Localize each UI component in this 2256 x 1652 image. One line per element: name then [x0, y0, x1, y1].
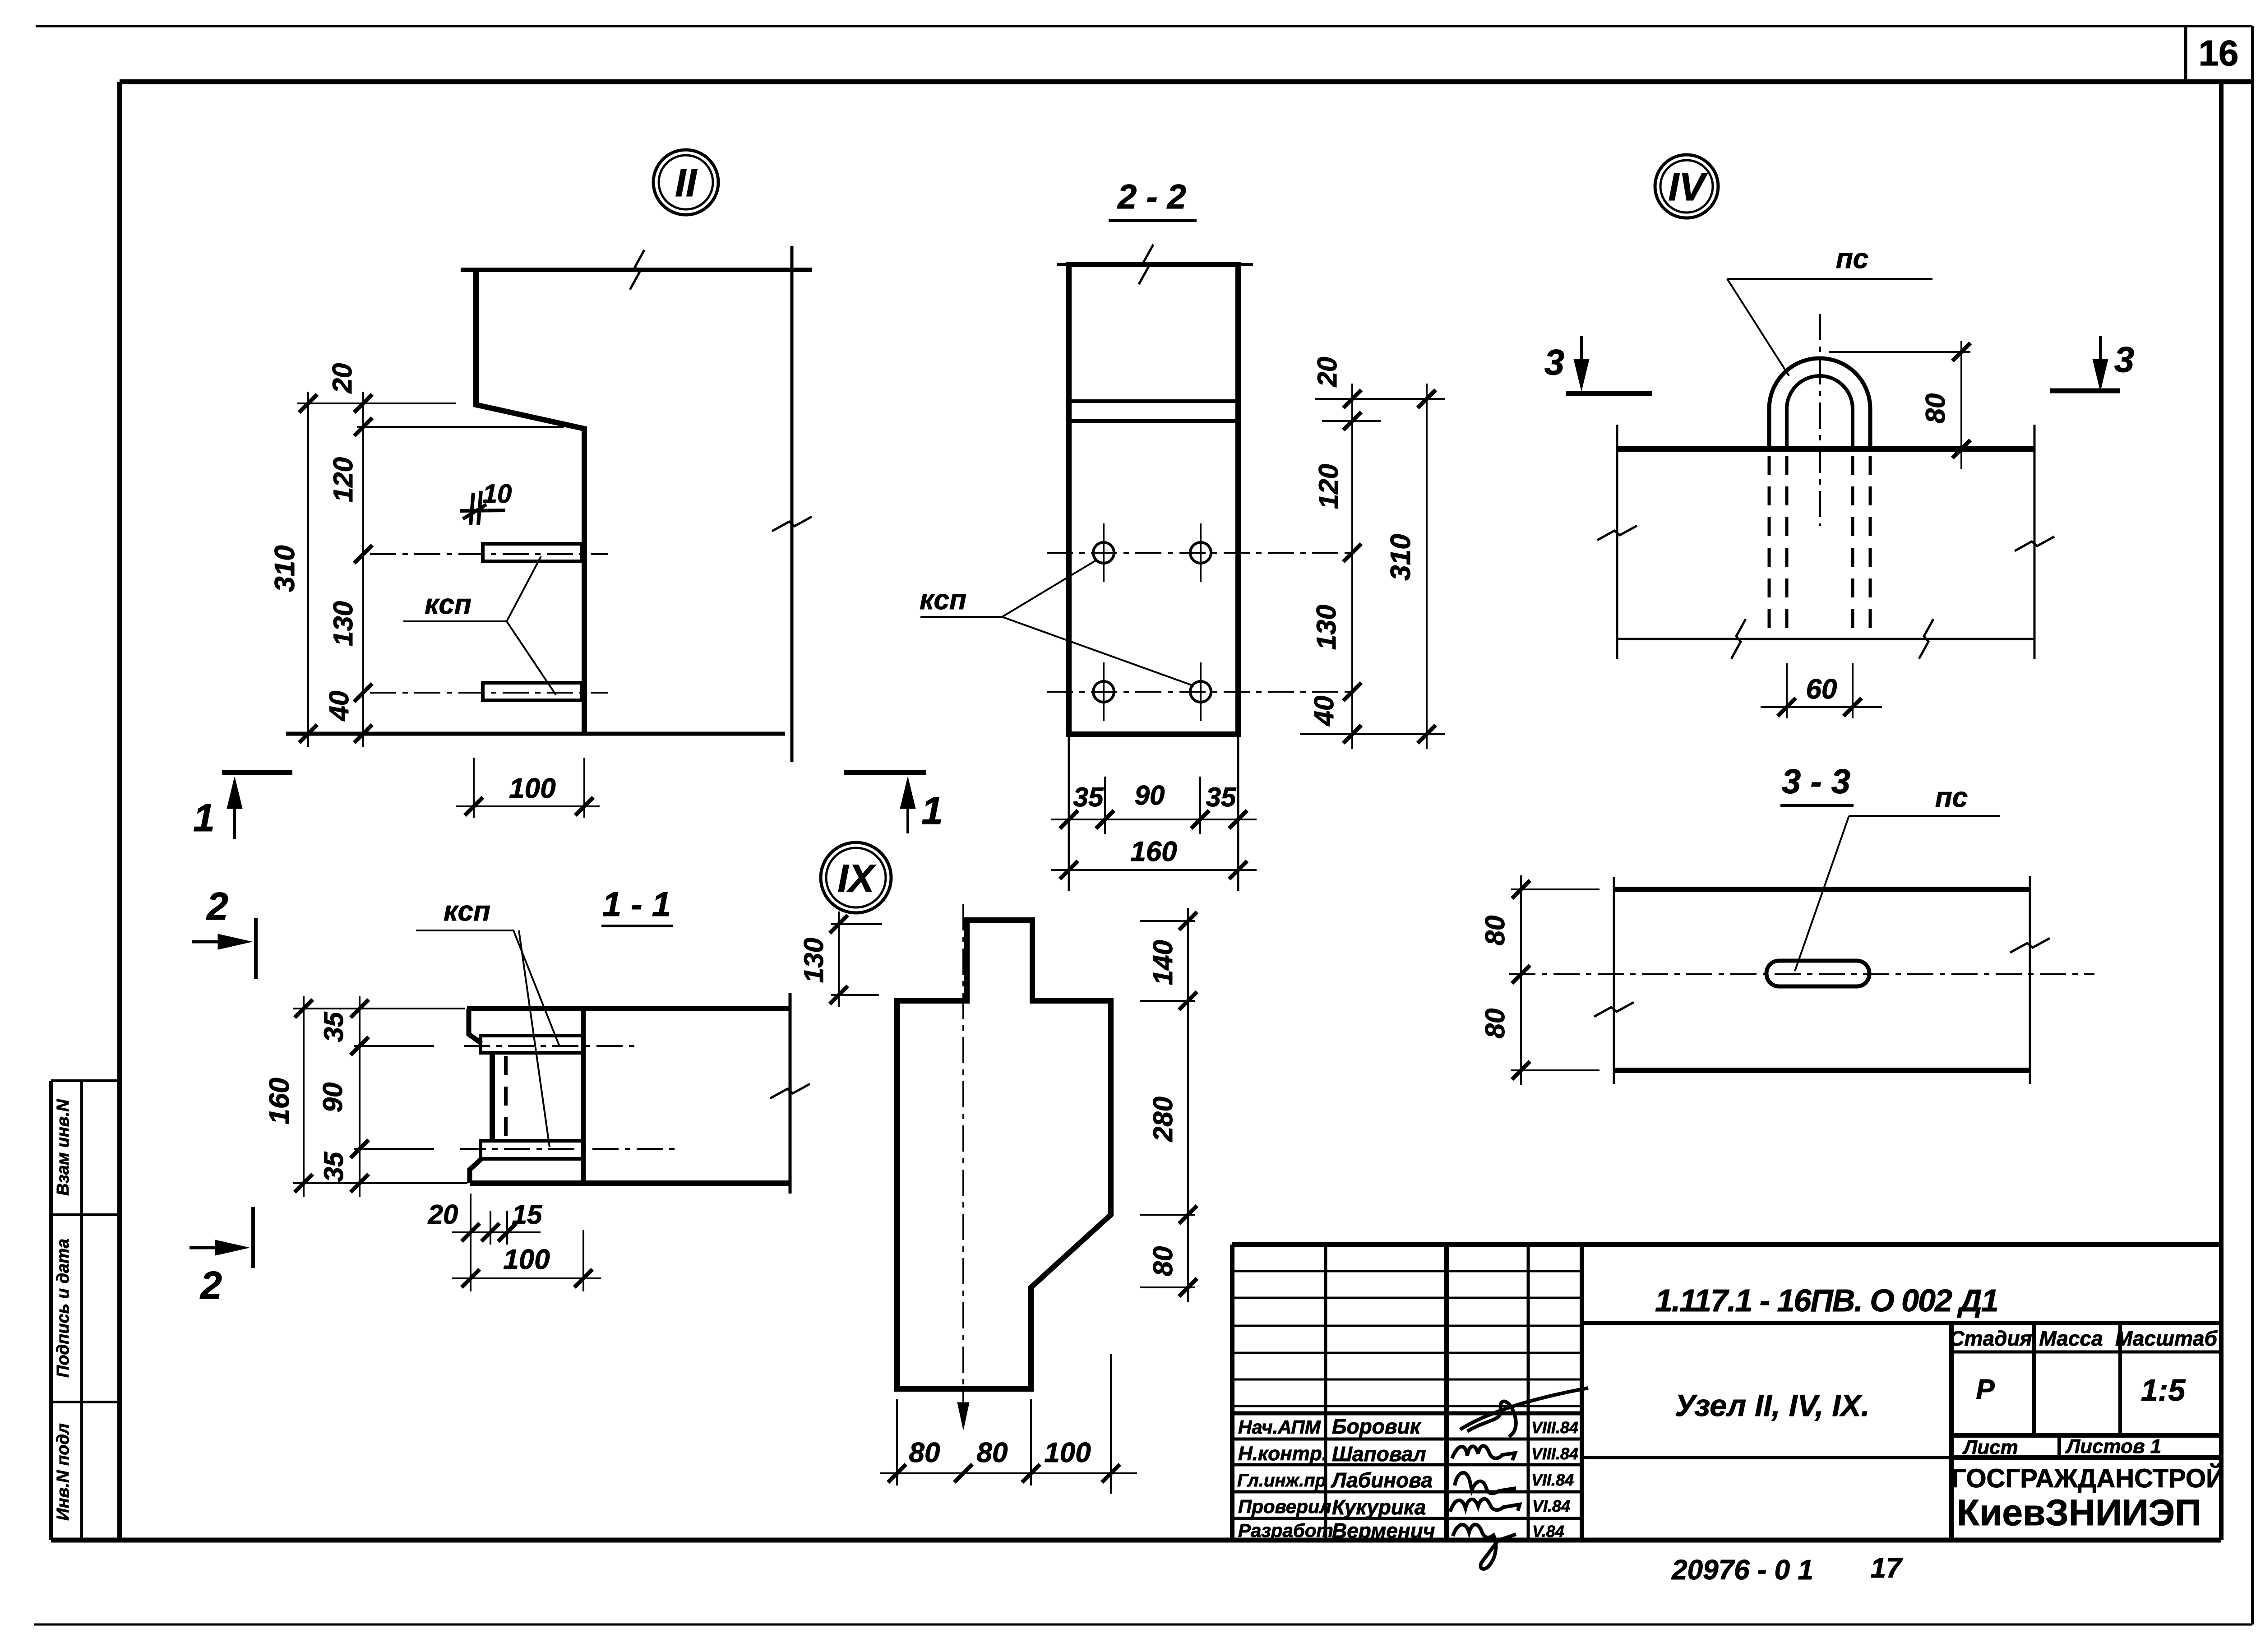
svg-text:20: 20: [327, 363, 357, 394]
section 2-2 hole top-right: [1190, 542, 1211, 563]
view II upper plate center line: [370, 553, 608, 555]
svg-text:90: 90: [318, 1083, 348, 1113]
detail IX column outline: [897, 920, 1111, 1389]
svg-text:VI.84: VI.84: [1532, 1497, 1570, 1515]
svg-text:140: 140: [1148, 940, 1178, 985]
section 1-1 dimension chain 35/90/35: [359, 996, 361, 1197]
svg-text:ксп: ксп: [425, 589, 472, 620]
section 3-3 dimension 80/80: [1520, 875, 1522, 1085]
svg-text:2: 2: [199, 1264, 222, 1307]
svg-text:35: 35: [319, 1151, 349, 1182]
view II beam top edge with break: [461, 268, 812, 272]
title block left table verticals: [1324, 1245, 1327, 1540]
svg-text:310: 310: [269, 545, 300, 592]
svg-text:пс: пс: [1935, 782, 1968, 813]
main frame right edge: [2219, 82, 2224, 1540]
svg-text:80: 80: [1148, 1246, 1178, 1277]
svg-text:120: 120: [1313, 464, 1344, 509]
svg-text:Гл.инж.пр: Гл.инж.пр: [1237, 1471, 1326, 1490]
section 3-3 plate bottom edge: [1614, 1068, 2030, 1073]
svg-text:35: 35: [1073, 782, 1104, 812]
svg-text:100: 100: [1044, 1437, 1091, 1468]
svg-text:Лабинова: Лабинова: [1331, 1468, 1433, 1492]
svg-text:20: 20: [428, 1199, 458, 1230]
detail IV slab right break edge: [2034, 425, 2036, 659]
svg-text:160: 160: [1130, 836, 1177, 867]
view II dimension 310: [307, 392, 309, 747]
section 3-3 slot пс: [1766, 961, 1869, 986]
svg-text:1.117.1 - 16ПВ. О 002 Д1: 1.117.1 - 16ПВ. О 002 Д1: [1655, 1283, 1998, 1318]
svg-text:Узел II, IV, IX.: Узел II, IV, IX.: [1675, 1388, 1870, 1423]
svg-text:ГОСГРАЖДАНСТРОЙ: ГОСГРАЖДАНСТРОЙ: [1951, 1464, 2225, 1493]
section 1-1 web hidden line: [504, 1056, 508, 1138]
section 3-3 plate top edge: [1614, 887, 2030, 892]
outer sheet border top line: [36, 25, 2252, 28]
section 2-2 hole bottom-right: [1190, 681, 1211, 702]
section 1-1 beam right break edge: [789, 993, 792, 1194]
section 2-2 dimension chain 20/120/130/40: [1351, 384, 1353, 749]
svg-text:VII.84: VII.84: [1531, 1471, 1574, 1489]
svg-text:пс: пс: [1836, 243, 1868, 274]
view II upper plate ксп: [483, 544, 582, 561]
section 2-2 right extension lines: [1315, 398, 1445, 400]
svg-text:Шаповал: Шаповал: [1332, 1442, 1426, 1466]
detail IV lifting loop пс inner: [1787, 376, 1853, 450]
svg-text:100: 100: [509, 773, 555, 804]
svg-text:VIII.84: VIII.84: [1531, 1444, 1578, 1463]
svg-text:80: 80: [1480, 1009, 1510, 1039]
main frame bottom edge: [51, 1538, 2221, 1543]
svg-text:120: 120: [328, 457, 358, 502]
svg-text:V.84: V.84: [1532, 1522, 1564, 1541]
section mark 1 right: [844, 770, 926, 775]
svg-text:КиевЗНИИЭП: КиевЗНИИЭП: [1957, 1492, 2201, 1533]
section 1-1 dimension 20/15: [452, 1231, 541, 1233]
view II dimension chain 20/120/130/40: [362, 392, 364, 747]
svg-text:280: 280: [1148, 1097, 1178, 1142]
section 1-1 column left profile lower chamfer: [470, 1159, 481, 1183]
detail IV label circle: [1655, 155, 1718, 218]
section 2-2 upper holes center line: [1047, 552, 1352, 554]
section 1-1 column left profile upper chamfer: [469, 1009, 481, 1043]
section 1-1 lower plate ксп: [481, 1141, 583, 1159]
svg-text:20976 - 0 1: 20976 - 0 1: [1671, 1555, 1813, 1586]
detail IV loop embedded legs dashed: [1768, 456, 1771, 637]
detail IV slab top edge: [1617, 446, 2034, 452]
signature Лабинова: [1455, 1473, 1516, 1494]
svg-text:1 - 1: 1 - 1: [602, 885, 671, 924]
title block right sub-table: [1949, 1323, 1954, 1540]
svg-text:310: 310: [1385, 534, 1416, 580]
svg-text:ксп: ксп: [920, 584, 966, 615]
detail IV lifting loop пс outer: [1769, 358, 1870, 450]
detail IX right extension lines: [1140, 920, 1195, 922]
svg-text:IV: IV: [1668, 166, 1708, 209]
svg-text:40: 40: [324, 691, 354, 722]
svg-text:160: 160: [264, 1078, 295, 1124]
svg-text:40: 40: [1309, 696, 1339, 727]
signature flourish Боровик: [1460, 1388, 1588, 1437]
section 2-2 dimension 35/90/35: [1051, 819, 1257, 820]
left stamp boxes outline: [49, 1081, 53, 1540]
detail IX bottom extension lines: [896, 1399, 898, 1485]
section 1-1 dimension 100: [452, 1277, 601, 1279]
svg-text:Стадия: Стадия: [1949, 1327, 2032, 1350]
svg-text:130: 130: [799, 938, 829, 983]
detail IX dimension 80/80/100: [880, 1472, 1137, 1474]
title block doc-number cell top edge: [1582, 1242, 2221, 1247]
section 1-1 upper plate center line: [464, 1045, 640, 1047]
svg-text:16: 16: [2199, 33, 2239, 73]
svg-text:130: 130: [1311, 605, 1341, 650]
svg-text:1:5: 1:5: [2141, 1373, 2186, 1407]
signature Шаповал: [1452, 1446, 1515, 1460]
detail IV dimension 80: [1829, 351, 1970, 353]
section 2-2 hole bottom-left: [1093, 681, 1114, 702]
svg-text:ксп: ксп: [444, 896, 490, 927]
svg-text:35: 35: [1206, 782, 1237, 812]
svg-text:Кукурика: Кукурика: [1332, 1495, 1426, 1519]
view II column profile: [476, 270, 584, 734]
section 1-1 beam bottom edge: [470, 1180, 790, 1186]
detail IX label circle: [821, 842, 891, 913]
section 2-2 top edge overshoot with break: [1057, 263, 1253, 266]
page number box "16" top-right: [2184, 26, 2187, 81]
section 1-1 lower plate center line: [460, 1148, 675, 1150]
detail II label circle: [653, 150, 718, 215]
section 1-1 column right edge: [581, 1009, 586, 1183]
detail IV loop center line: [1819, 314, 1821, 526]
svg-text:1: 1: [921, 789, 943, 833]
svg-text:20: 20: [1312, 357, 1342, 388]
svg-text:Боровик: Боровик: [1332, 1415, 1422, 1438]
view II dimension 100: [473, 758, 475, 818]
svg-text:IX: IX: [837, 857, 876, 900]
view II beam bottom edge: [286, 732, 785, 736]
section 1-1 beam top edge: [467, 1006, 790, 1011]
svg-text:80: 80: [1920, 393, 1951, 424]
svg-text:Взам инв.N: Взам инв.N: [54, 1099, 73, 1196]
detail IV slab left break edge: [1616, 425, 1618, 659]
title block left table thin row lines: [1232, 1270, 1582, 1273]
outer sheet border bottom line: [34, 1624, 2252, 1626]
svg-text:1: 1: [193, 796, 215, 840]
svg-text:80: 80: [1480, 916, 1510, 946]
detail IX dimension 130: [831, 923, 882, 925]
svg-text:2: 2: [206, 885, 228, 928]
section 3-3 center line: [1509, 973, 2094, 975]
section 2-2 plate outline: [1069, 264, 1238, 734]
svg-text:3: 3: [1544, 342, 1565, 382]
view II lower plate center line: [370, 692, 608, 694]
svg-text:17: 17: [1871, 1553, 1903, 1584]
svg-text:2 - 2: 2 - 2: [1117, 178, 1186, 216]
svg-text:Проверил: Проверил: [1238, 1496, 1331, 1517]
view II beam right break edge: [791, 246, 794, 762]
section 2-2 bottom extension lines: [1068, 734, 1070, 891]
section 1-1 bottom extension lines: [470, 1194, 472, 1291]
section 2-2 dimension 310: [1426, 384, 1428, 749]
main frame left edge: [117, 82, 122, 1540]
svg-text:Масштаб: Масштаб: [2115, 1327, 2218, 1350]
signature Кукурика: [1450, 1499, 1520, 1512]
view II dim extension lines: [297, 403, 456, 404]
svg-text:Лист: Лист: [1962, 1436, 2018, 1458]
section 2-2 lower holes center line: [1047, 691, 1352, 693]
svg-text:3: 3: [2114, 339, 2135, 379]
svg-text:130: 130: [328, 601, 358, 646]
detail IX column center line with arrow: [962, 904, 964, 1410]
svg-text:Нач.АПМ: Нач.АПМ: [1238, 1416, 1321, 1438]
svg-text:Разработ: Разработ: [1238, 1520, 1333, 1541]
title block outer frame: [1232, 1242, 1582, 1247]
svg-text:15: 15: [512, 1199, 543, 1230]
svg-text:Р: Р: [1976, 1374, 1995, 1405]
title block staff rows separators: [1232, 1411, 1582, 1416]
detail IV dimension 60: [1786, 663, 1788, 718]
svg-text:Н.контр.: Н.контр.: [1238, 1443, 1327, 1465]
svg-text:Масса: Масса: [2039, 1327, 2103, 1350]
svg-text:3 - 3: 3 - 3: [1782, 763, 1850, 801]
section mark 1 left: [222, 770, 292, 775]
section 3-3 extension lines: [1511, 888, 1600, 890]
svg-text:80: 80: [909, 1437, 940, 1468]
svg-text:60: 60: [1806, 674, 1837, 705]
section 1-1 upper plate ксп: [481, 1036, 583, 1053]
section 2-2 hole top-left: [1093, 542, 1114, 563]
detail IX dimension chain 140/280/80: [1187, 908, 1189, 1302]
section 2-2 dimension 160: [1051, 869, 1257, 871]
svg-text:Верменич: Верменич: [1332, 1519, 1435, 1542]
svg-text:Листов 1: Листов 1: [2065, 1435, 2161, 1458]
section 1-1 web vertical: [490, 1053, 495, 1141]
section 1-1 left extension lines: [293, 1008, 465, 1009]
svg-text:Инв.N подл: Инв.N подл: [54, 1423, 73, 1520]
svg-text:100: 100: [503, 1244, 550, 1275]
view II lower plate ксп: [483, 683, 582, 700]
svg-text:35: 35: [319, 1011, 349, 1042]
svg-text:II: II: [675, 162, 698, 205]
outer sheet border right line: [2251, 26, 2254, 1624]
svg-text:80: 80: [977, 1437, 1008, 1468]
svg-text:10: 10: [483, 479, 512, 509]
section 2-2 upper strip lines: [1069, 399, 1238, 403]
main frame top edge: [120, 79, 2252, 84]
signature Верменич: [1453, 1524, 1516, 1569]
section 3-3 right break edge: [2029, 876, 2031, 1084]
detail IV slab bottom edge with breaks: [1617, 638, 2034, 640]
svg-text:Подпись и дата: Подпись и дата: [54, 1239, 73, 1378]
svg-text:VIII.84: VIII.84: [1531, 1418, 1578, 1437]
section 1-1 dimension 160: [303, 996, 305, 1197]
svg-text:90: 90: [1135, 780, 1165, 810]
section 3-3 left break edge: [1613, 877, 1615, 1084]
view II weld symbol with 10: [471, 493, 473, 525]
